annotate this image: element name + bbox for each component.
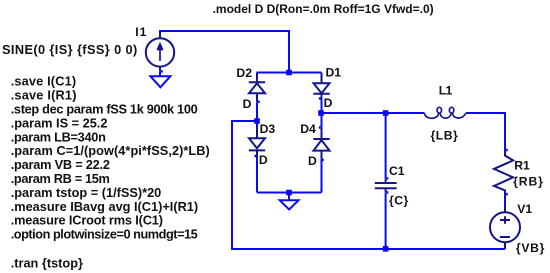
inductor L1: [425, 107, 466, 118]
node C1 top junction: [383, 110, 389, 116]
svg-text:D: D: [243, 97, 252, 111]
svg-text:I1: I1: [135, 25, 147, 39]
wire from I1 top to bridge top: [160, 31, 289, 73]
svg-text:.step dec param fSS 1k 900k 10: .step dec param fSS 1k 900k 100: [11, 102, 198, 117]
svg-text:.measure IBavg avg I(C1)+I(R1): .measure IBavg avg I(C1)+I(R1): [11, 199, 198, 214]
pin end tick C1 bottom: [386, 191, 388, 193]
wire bridge top rail: [257, 72, 322, 74]
wire bridge right branch middle: [321, 98, 323, 127]
svg-text:.param VB = 22.2: .param VB = 22.2: [11, 157, 110, 172]
svg-text:R1: R1: [514, 159, 530, 173]
pin end tick D4 bottom: [322, 159, 324, 161]
pin end tick D3 bottom: [254, 155, 256, 157]
wire bridge left branch lower: [256, 156, 258, 193]
wire bridge bottom rail: [257, 192, 322, 194]
svg-text:.save I(R1): .save I(R1): [11, 88, 77, 103]
wire V1 bottom stub: [504, 246, 506, 249]
pin end tick D1 bottom: [319, 97, 321, 99]
svg-text:.param LB=340n: .param LB=340n: [11, 129, 106, 144]
svg-text:SINE(0 {IS} {fSS} 0 0): SINE(0 {IS} {fSS} 0 0): [2, 42, 138, 57]
pin end tick D2 bottom: [258, 101, 260, 103]
svg-text:.measure ICroot rms I(C1): .measure ICroot rms I(C1): [11, 213, 163, 228]
svg-text:D2: D2: [236, 66, 252, 80]
pin end tick R1 top: [506, 149, 508, 151]
svg-text:{VB}: {VB}: [516, 241, 545, 255]
pin end tick R1 bottom: [506, 193, 508, 195]
diode D2: [249, 73, 265, 103]
pin end tick I1 bottom: [161, 70, 163, 72]
node C1 bottom junction: [383, 246, 389, 252]
resistor R1: [494, 151, 513, 195]
svg-text:{LB}: {LB}: [431, 129, 459, 143]
capacitor C1: [375, 179, 397, 193]
wire C1 bottom: [385, 193, 387, 249]
wire bridge right branch lower: [321, 159, 323, 193]
svg-text:.param RB = 15m: .param RB = 15m: [11, 171, 110, 186]
svg-text:.param IS = 25.2: .param IS = 25.2: [11, 115, 108, 130]
pin end tick C1 top: [386, 177, 388, 179]
node left AC junction: [254, 118, 260, 124]
node right AC junction: [318, 110, 324, 116]
svg-text:D3: D3: [260, 122, 276, 136]
svg-text:V1: V1: [517, 202, 532, 216]
svg-text:.option plotwinsize=0 numdgt=1: .option plotwinsize=0 numdgt=15: [11, 227, 198, 242]
wire L1 to right corner: [466, 113, 505, 151]
wire R1 to V1: [504, 194, 506, 209]
ground under bridge: [280, 193, 299, 210]
voltage source V1: [490, 208, 520, 247]
svg-text:.tran {tstop}: .tran {tstop}: [11, 256, 83, 271]
diode D4: [313, 128, 329, 159]
wire left AC node to left rail: [232, 121, 505, 249]
svg-text:C1: C1: [389, 164, 405, 178]
pin end tick D4 top: [319, 126, 321, 128]
current source I1: [146, 34, 174, 72]
svg-text:.param C=1/(pow(4*pi*fSS,2)*LB: .param C=1/(pow(4*pi*fSS,2)*LB): [11, 143, 210, 158]
svg-text:D: D: [308, 154, 317, 168]
svg-text:D1: D1: [326, 66, 342, 80]
svg-text:.param tstop = (1/fSS)*20: .param tstop = (1/fSS)*20: [11, 185, 162, 200]
svg-text:D: D: [259, 153, 268, 167]
svg-text:{C}: {C}: [389, 194, 409, 208]
node bridge bottom junction: [286, 190, 292, 196]
ground under I1: [150, 76, 170, 87]
diode D3: [249, 128, 265, 156]
svg-text:D4: D4: [300, 122, 316, 136]
svg-text:{RB}: {RB}: [513, 174, 544, 188]
wire right AC node to L1: [322, 112, 425, 114]
diode D1: [313, 73, 329, 99]
svg-text:.model D D(Ron=.0m Roff=1G Vfw: .model D D(Ron=.0m Roff=1G Vfwd=.0): [213, 2, 434, 16]
node bridge top junction: [286, 70, 292, 76]
wire C1 top: [385, 113, 387, 179]
svg-text:D: D: [324, 96, 333, 110]
wire I1 bottom stub: [159, 72, 161, 77]
svg-text:.save I(C1): .save I(C1): [11, 74, 77, 89]
svg-text:L1: L1: [439, 84, 453, 98]
wire bridge left branch middle: [256, 103, 258, 129]
